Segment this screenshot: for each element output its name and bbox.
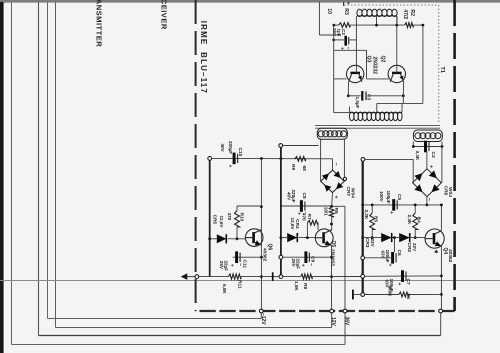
svg-text:Q3: Q3 — [365, 56, 371, 63]
node A (R3 left junction) — [333, 24, 336, 27]
node (R2 right junction) — [422, 24, 425, 27]
svg-text:22V: 22V — [370, 239, 375, 248]
wire: 36V feed bottom horizontal — [39, 335, 441, 337]
resistor R5 — [370, 213, 375, 229]
svg-text:470: 470 — [302, 213, 307, 221]
zener CR3 — [381, 233, 392, 242]
top scan edge bar — [0, 0, 500, 3]
wire top rail y=25 — [334, 24, 339, 26]
svg-text:R7: R7 — [306, 214, 312, 220]
svg-text:22V: 22V — [412, 243, 417, 252]
capacitor C2 — [332, 39, 335, 42]
left scan edge bar — [0, 2, 4, 353]
wire emitter to tap bus — [377, 102, 423, 104]
svg-text:47/2: 47/2 — [402, 9, 408, 19]
node: block2 input terminal — [279, 144, 283, 148]
wire: left cable run vertical x=56 — [55, 2, 57, 328]
resistor R9 — [295, 157, 306, 162]
wire winding B right lead to bridge right — [441, 147, 443, 183]
svg-text:R9: R9 — [290, 164, 296, 170]
svg-text:R8: R8 — [302, 283, 308, 289]
T1 secondary winding B — [413, 130, 442, 142]
transistor Q5 — [315, 229, 333, 247]
resistor R6 300K — [399, 292, 409, 297]
svg-text:R2: R2 — [409, 9, 415, 16]
zener CR4 — [281, 237, 287, 239]
wire: block2 rail — [280, 147, 282, 276]
svg-text:+: + — [295, 212, 301, 215]
wire to Q2 base — [334, 49, 367, 51]
bridge rectifier CR7 W04 — [321, 170, 345, 192]
svg-text:300K: 300K — [387, 286, 392, 298]
wire Q2 collector up to coil — [396, 16, 398, 73]
transistor Q4 — [425, 229, 444, 248]
zener CR2 — [399, 233, 410, 242]
svg-text:CR5: CR5 — [211, 215, 217, 225]
svg-text:C7: C7 — [405, 279, 411, 285]
transistor Q2 — [388, 65, 405, 82]
wire Q3 base lead — [334, 78, 347, 80]
wire emitter bus — [348, 95, 360, 97]
capacitor C10 — [233, 153, 236, 165]
svg-text:CEIVER: CEIVER — [159, 0, 168, 30]
svg-text:+: + — [339, 47, 345, 50]
capacitor C9 — [304, 251, 307, 263]
wire: left cable run vertical x=38.5 — [38, 2, 40, 336]
node on border — [195, 275, 199, 279]
winding A leads — [320, 139, 322, 181]
wire bridge left up to terminal wire — [412, 159, 414, 182]
node: block1 input terminal — [208, 157, 212, 161]
wire: 12V return bottom horizontal — [56, 327, 332, 329]
svg-text:Q2: Q2 — [379, 56, 385, 63]
dashed chassis border left — [195, 0, 197, 311]
wire: riser to 12V node — [331, 311, 333, 328]
svg-text:CR2: CR2 — [406, 243, 412, 253]
resistor R8 — [283, 276, 301, 278]
svg-text:R6: R6 — [406, 294, 411, 300]
wire y=204.9 — [363, 204, 442, 206]
dotted box top border (oscillator) — [344, 4, 439, 6]
emitter arrow mark below Q4 — [434, 250, 438, 253]
svg-text:10/1: 10/1 — [323, 207, 328, 216]
wire bridge bottom down — [426, 197, 428, 205]
node 12V — [330, 309, 334, 313]
svg-text:100V: 100V — [379, 191, 384, 203]
svg-text:+: + — [396, 283, 402, 286]
svg-text:25V: 25V — [291, 259, 296, 268]
svg-text:36V: 36V — [343, 317, 349, 327]
node 36V corner — [439, 309, 443, 313]
svg-text:40362: 40362 — [262, 248, 268, 262]
svg-text:470: 470 — [227, 213, 232, 221]
connector bar — [272, 272, 274, 281]
dashed chassis border right — [453, 0, 456, 311]
svg-text:1,5K: 1,5K — [294, 281, 299, 291]
connector bar block3 — [352, 290, 354, 300]
svg-text:+: + — [388, 211, 394, 214]
capacitor C8 — [300, 200, 303, 212]
dotted box right border — [438, 5, 440, 123]
inductor T1 primary bottom coil — [350, 112, 403, 114]
svg-text:+: + — [345, 2, 351, 5]
svg-text:220µF: 220µF — [228, 141, 233, 154]
svg-text:C9: C9 — [309, 256, 315, 262]
capacitor C7 — [401, 270, 404, 282]
svg-text:CR3: CR3 — [364, 238, 370, 248]
wire: riser 36V line to corner node — [440, 311, 442, 336]
wire left rail of oscillator — [333, 25, 335, 113]
svg-text:C5: C5 — [396, 194, 402, 200]
svg-text:68: 68 — [301, 166, 307, 172]
capacitor C11 — [235, 251, 238, 263]
svg-text:C8: C8 — [301, 193, 307, 199]
capacitor C5 — [392, 199, 395, 211]
node -12V — [259, 309, 263, 313]
wire right rail down from R2 — [422, 25, 424, 103]
transistor Q6 — [245, 229, 263, 247]
svg-text:C4: C4 — [430, 152, 436, 158]
bridge rectifier CR8 W04 — [413, 169, 442, 197]
wire: -12V rail vertical — [260, 159, 262, 312]
svg-text:R11: R11 — [236, 280, 242, 289]
wire C4 to bridge top — [426, 152, 428, 169]
svg-text:–: – — [333, 163, 339, 166]
svg-text:R5: R5 — [372, 216, 378, 222]
wire y=257.8 — [365, 257, 393, 259]
svg-text:6,8K: 6,8K — [222, 284, 227, 294]
svg-text:–12V: –12V — [260, 313, 266, 325]
svg-text:12,6V: 12,6V — [219, 216, 224, 229]
resistor R11 — [228, 274, 241, 279]
dashed chassis border bottom — [196, 310, 455, 312]
svg-text:10: 10 — [326, 8, 332, 14]
svg-text:ANSMITTER: ANSMITTER — [94, 0, 103, 47]
resistor R10 — [235, 211, 240, 227]
svg-text:R6: R6 — [333, 208, 339, 214]
wire: block1 rail — [209, 160, 211, 276]
scan artifact line across page — [0, 280, 500, 282]
svg-text:+: + — [226, 165, 232, 168]
T1 secondary winding A — [317, 128, 347, 139]
svg-text:+: + — [387, 264, 393, 267]
wire Q4 collector — [440, 205, 442, 231]
wire: outer bottom horizontal — [12, 344, 346, 346]
resistor R6 — [329, 207, 334, 217]
svg-text:R3: R3 — [343, 8, 349, 15]
resistor R7 — [307, 220, 318, 225]
svg-text:T1: T1 — [439, 67, 445, 74]
wire block2 mid rail down — [331, 245, 333, 311]
wire: riser to -12V node — [260, 311, 262, 319]
svg-text:12,6V: 12,6V — [290, 218, 295, 231]
svg-text:C6: C6 — [396, 250, 402, 256]
arrow output to left — [181, 273, 188, 279]
svg-text:40V: 40V — [220, 144, 225, 153]
svg-text:2,2K: 2,2K — [364, 210, 369, 220]
wire: left cable run vertical x=11 — [11, 2, 13, 345]
capacitor C6 — [394, 238, 396, 252]
svg-text:–: – — [237, 263, 243, 266]
svg-text:W04: W04 — [447, 187, 453, 197]
svg-text:+: + — [299, 264, 305, 267]
wire bridge bottom down — [331, 193, 334, 207]
wire y=206.3 to 36V drop — [332, 205, 345, 207]
svg-text:40362: 40362 — [447, 249, 453, 263]
svg-text:R4: R4 — [416, 217, 422, 223]
svg-text:25V: 25V — [332, 28, 337, 36]
wire emitter out y=257.2 — [233, 256, 262, 258]
svg-text:25V: 25V — [219, 261, 224, 270]
svg-text:+: + — [228, 264, 234, 267]
wire y=257.2 C9 — [283, 256, 332, 258]
wire y=148 with C4 — [413, 146, 442, 148]
supply tick + — [343, 2, 345, 6]
svg-text:2N3232: 2N3232 — [372, 57, 378, 75]
resistor R4 — [413, 213, 418, 229]
wire: left cable run vertical x=47 — [47, 2, 49, 319]
wire Q3 emitter down — [347, 82, 349, 96]
winding B leads — [412, 142, 414, 147]
svg-text:3,3K: 3,3K — [415, 151, 420, 161]
wire Q4 emitter rail down — [440, 246, 442, 311]
coil center tap — [376, 16, 378, 25]
node: block3 input terminal — [361, 158, 365, 162]
capacitor C4 — [424, 141, 427, 153]
wire Q3 collector up to coil — [355, 25, 357, 73]
wire bridge top to R9 wire — [332, 159, 334, 170]
wire: riser to 36V node — [344, 311, 346, 345]
svg-text:100µF: 100µF — [386, 191, 391, 204]
svg-text:C10: C10 — [237, 148, 243, 157]
resistor R2 — [405, 23, 414, 28]
resistor R3 — [339, 23, 350, 28]
wire diode row y=237.6 — [363, 237, 425, 239]
wire: -12V return bottom horizontal — [48, 318, 262, 320]
wire: mid distribution y=206.0 — [237, 205, 261, 207]
svg-text:1,5µF: 1,5µF — [355, 97, 360, 109]
svg-text:2,3K: 2,3K — [407, 215, 412, 225]
transformer core lines — [315, 124, 440, 126]
wire Q2 emitter down — [402, 82, 404, 96]
svg-text:12V: 12V — [330, 317, 336, 327]
svg-text:–: – — [308, 263, 314, 266]
transistor Q3 — [347, 65, 364, 82]
wire y=276.3 with C7 — [365, 275, 442, 277]
zener CR5 — [210, 238, 217, 240]
wire y=294.5 with R6 300K — [365, 294, 399, 296]
svg-text:Q5: Q5 — [330, 241, 336, 248]
supply lead top-left entering — [318, 2, 320, 35]
wire: block3 rail thick — [362, 161, 364, 294]
svg-text:40V: 40V — [286, 192, 291, 201]
svg-text:–: – — [344, 47, 350, 50]
inductor T1 primary top coil — [357, 15, 397, 17]
svg-text:C3: C3 — [365, 94, 371, 100]
svg-text:IRME BLU–117: IRME BLU–117 — [199, 21, 208, 94]
svg-text:W04: W04 — [350, 188, 356, 198]
wire terminal to bridge left — [365, 158, 414, 160]
node 36V — [343, 309, 347, 313]
wire from terminal to winding lead — [283, 145, 319, 147]
svg-text:R10: R10 — [239, 213, 245, 222]
wire y=158.4 distribution — [212, 157, 333, 159]
capacitor C3 — [361, 91, 363, 101]
